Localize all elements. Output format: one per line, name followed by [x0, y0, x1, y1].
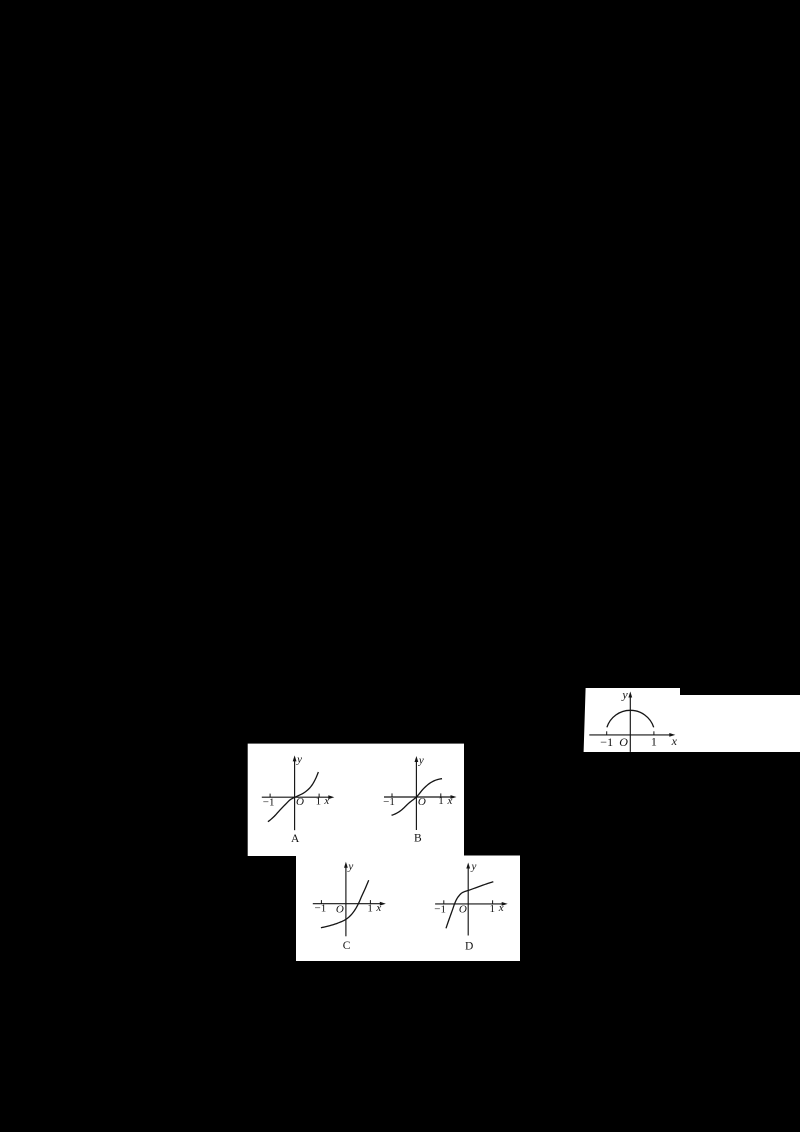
- svg-text:y: y: [621, 688, 628, 702]
- svg-text:x: x: [671, 734, 678, 748]
- svg-text:A: A: [291, 833, 300, 845]
- graph B tick -1: [391, 793, 393, 797]
- svg-text:C: C: [343, 940, 351, 952]
- graph C y-axis: [344, 862, 348, 937]
- svg-text:−1: −1: [600, 735, 613, 749]
- svg-text:y: y: [347, 860, 353, 872]
- graph A tick -1: [269, 794, 271, 798]
- svg-text:1: 1: [651, 735, 657, 749]
- graph A tick 1: [318, 794, 320, 798]
- svg-text:O: O: [619, 735, 628, 749]
- svg-text:1: 1: [316, 796, 322, 808]
- fig1 semicircle curve: [607, 710, 654, 727]
- graph C curve (exponential-like): [321, 880, 369, 928]
- graph A x-axis: [262, 795, 335, 799]
- graph B tick 1: [440, 793, 442, 797]
- svg-text:x: x: [323, 795, 329, 807]
- figure 2 white panel (options A,B): [248, 744, 464, 856]
- graph A y-axis: [293, 755, 297, 830]
- svg-text:1: 1: [367, 903, 373, 915]
- figure 1 white panel (right band): [680, 695, 800, 752]
- graph D tick -1: [443, 900, 445, 904]
- svg-text:O: O: [418, 796, 426, 808]
- fig1 x-axis: [589, 733, 675, 737]
- graph B curve (arctan-like): [392, 779, 443, 816]
- graph D x-axis: [435, 902, 508, 906]
- figure 1 white panel (graph part, slight scan skew on left edge): [584, 688, 680, 752]
- svg-text:−1: −1: [315, 903, 327, 915]
- svg-text:O: O: [336, 903, 344, 915]
- svg-text:O: O: [459, 904, 467, 916]
- svg-text:y: y: [470, 860, 476, 872]
- svg-text:x: x: [498, 902, 504, 914]
- svg-text:O: O: [296, 796, 304, 808]
- svg-text:D: D: [465, 941, 473, 953]
- fig1 y-axis: [628, 692, 632, 752]
- svg-text:1: 1: [438, 795, 444, 807]
- svg-text:−1: −1: [263, 796, 275, 808]
- svg-text:x: x: [447, 795, 453, 807]
- graph B x-axis: [384, 795, 457, 799]
- figure 3 white panel (options C,D): [296, 856, 520, 962]
- fig1 tick -1: [606, 731, 608, 735]
- graph B y-axis: [415, 756, 419, 830]
- graph C tick -1: [320, 900, 322, 904]
- graph C x-axis: [313, 902, 386, 906]
- svg-text:−1: −1: [383, 796, 395, 808]
- svg-text:−1: −1: [434, 904, 446, 916]
- graph A curve (cubic-like): [268, 772, 318, 822]
- svg-text:x: x: [375, 902, 381, 914]
- graph D tick 1: [492, 900, 494, 904]
- svg-text:y: y: [418, 754, 424, 766]
- fig1 tick 1: [653, 731, 655, 735]
- svg-text:B: B: [414, 832, 422, 844]
- svg-text:y: y: [296, 754, 302, 766]
- graph D curve (log-like): [446, 882, 493, 929]
- svg-text:1: 1: [489, 903, 495, 915]
- graph C tick 1: [369, 900, 371, 904]
- graph D y-axis: [466, 863, 470, 936]
